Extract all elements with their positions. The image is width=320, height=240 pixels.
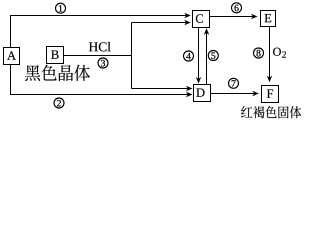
wire path 7: D to F [211, 93, 254, 95]
wire junction to C [132, 22, 187, 24]
wire path 5: D up to C [206, 33, 208, 84]
arrow into F top [267, 76, 272, 83]
circled 4 [184, 51, 194, 61]
label O2 [273, 48, 281, 56]
box C [193, 11, 210, 28]
arrow into D top [196, 77, 201, 84]
wire path 2: A bottom to D [11, 65, 188, 95]
box F [262, 86, 279, 103]
arrow into E left [251, 14, 258, 19]
junction vertical wire [131, 23, 133, 89]
box E [261, 11, 276, 27]
circled 8 [254, 48, 264, 58]
wire junction to D [132, 88, 188, 90]
circled 3 [98, 58, 108, 68]
arrow into F left [252, 91, 259, 96]
box D [194, 85, 211, 102]
box B [47, 47, 64, 64]
arrow into C bottom [204, 28, 209, 35]
wire path 6: C to E [210, 16, 253, 18]
circled 5 [208, 51, 218, 61]
circled 1 [56, 3, 66, 13]
circled 6 [232, 3, 242, 13]
label red-brown solid (hong he se gu ti) [241, 106, 301, 118]
circled 7 [229, 78, 239, 88]
wire path 8: E down to F (O2) [269, 27, 271, 78]
arrow into D left lower [186, 92, 193, 97]
box A [4, 48, 20, 65]
arrow into D left upper [186, 86, 193, 91]
label black crystal (hei se jing ti) [25, 65, 90, 81]
wire B to junction (HCl) [64, 55, 132, 57]
arrow into C left upper [184, 13, 191, 18]
circled 2 [54, 98, 64, 108]
label HCl [89, 42, 111, 51]
wire path 1: A top to C [11, 16, 187, 48]
wire path 4: C down to D [198, 28, 200, 79]
arrow into C left lower [184, 20, 191, 25]
